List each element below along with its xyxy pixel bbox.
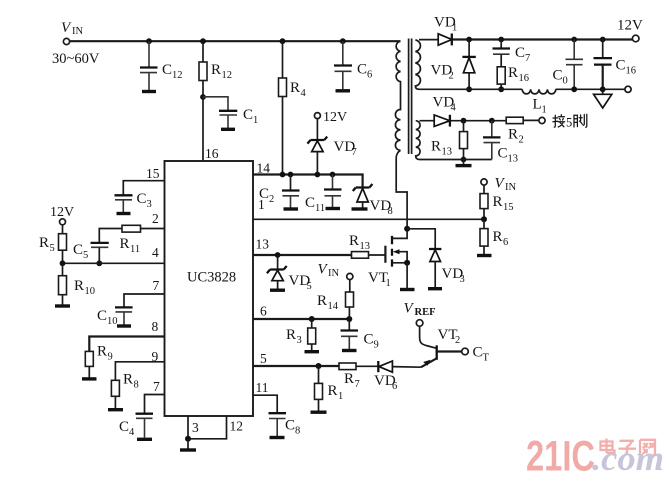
node CT terminal — [462, 348, 469, 355]
wire pin 7 lower — [145, 395, 165, 414]
label R8 — [123, 372, 139, 391]
junction C11 on pin14 rail — [330, 172, 336, 178]
ground of resistor R8 — [108, 408, 123, 411]
ground of zener diode VD5 — [270, 289, 285, 292]
svg-text:L: L — [533, 97, 542, 113]
zener diode VD8 — [353, 184, 373, 208]
resistor R5 — [59, 225, 67, 263]
diode VD2 — [462, 40, 475, 90]
svg-text:R: R — [39, 235, 49, 251]
svg-text:C: C — [553, 68, 563, 84]
label VD2 — [431, 63, 454, 82]
resistor R16 — [497, 67, 505, 90]
svg-text:.com: .com — [592, 439, 664, 478]
svg-text:R: R — [290, 80, 300, 96]
label VIN input — [61, 20, 83, 37]
svg-text:4: 4 — [129, 427, 135, 438]
resistor R13 output — [460, 121, 468, 160]
capacitor C9 — [341, 319, 359, 349]
wire drain node to VD3 — [407, 229, 435, 249]
ground of transistor VT1 source — [400, 288, 415, 291]
wire pin 3 — [187, 416, 189, 439]
label pin 2 — [152, 211, 159, 226]
label R7 — [344, 371, 360, 390]
label pin 15 — [146, 166, 160, 181]
svg-text:C: C — [357, 62, 367, 78]
ground of capacitor C12 — [142, 90, 156, 93]
resistor R3 — [308, 319, 316, 350]
svg-text:C: C — [498, 146, 508, 162]
label R16 — [508, 65, 529, 84]
label UC3828 — [187, 270, 236, 286]
ground of resistor R10 — [55, 304, 70, 307]
zener diode VD5 — [267, 255, 287, 289]
svg-text:2: 2 — [449, 71, 454, 82]
label 30~60V — [52, 51, 100, 67]
svg-text:2: 2 — [519, 135, 524, 146]
label R2 — [508, 127, 524, 146]
ground of capacitor C4 — [137, 438, 152, 441]
svg-text:5: 5 — [50, 243, 55, 254]
junction C16 top — [600, 37, 606, 43]
svg-text:C: C — [162, 62, 172, 78]
label 12V output — [617, 18, 643, 34]
svg-text:5: 5 — [566, 116, 572, 130]
svg-text:2: 2 — [269, 194, 274, 205]
transistor VT1 MOSFET — [385, 229, 407, 267]
label pin 6 — [260, 304, 267, 319]
capacitor C2 — [282, 175, 300, 208]
resistor R9 — [85, 351, 93, 377]
label 12V at R5 — [50, 205, 74, 220]
svg-text:3: 3 — [147, 199, 152, 210]
svg-text:3: 3 — [460, 274, 465, 285]
ground of capacitor C2 — [284, 207, 299, 210]
transformer T secondary winding bottom — [416, 121, 420, 160]
svg-text:5: 5 — [83, 250, 88, 261]
label VD5 — [289, 273, 312, 292]
resistor R7 — [339, 363, 378, 370]
svg-text:16: 16 — [626, 66, 637, 77]
svg-text:15: 15 — [503, 202, 514, 213]
wire node to C1 — [203, 97, 228, 110]
label R10 — [74, 278, 95, 297]
svg-text:16: 16 — [205, 146, 219, 161]
label C9 — [364, 332, 379, 351]
label pin 9 — [152, 349, 159, 364]
ground of zener diode VD8 — [352, 207, 368, 210]
junction C0 top — [571, 37, 577, 43]
svg-text:R: R — [493, 229, 503, 245]
label pin 14 — [257, 161, 271, 176]
svg-text:8: 8 — [295, 426, 300, 437]
junction C13 top — [489, 118, 495, 124]
wire pin 11 — [253, 395, 277, 413]
svg-text:11: 11 — [256, 380, 269, 395]
svg-text:C: C — [364, 332, 374, 348]
svg-text:6: 6 — [503, 237, 508, 248]
capacitor C16 — [594, 40, 613, 90]
node VIN terminal above R15 — [481, 179, 487, 185]
junction VT1 drain node — [404, 226, 410, 232]
svg-text:IN: IN — [328, 268, 339, 279]
svg-text:13: 13 — [256, 237, 270, 252]
svg-text:R: R — [328, 383, 338, 399]
svg-text:16: 16 — [519, 73, 530, 84]
label pin 12 — [230, 419, 244, 434]
svg-text:C: C — [243, 107, 253, 123]
svg-text:C: C — [285, 418, 295, 434]
label VIN at R14 — [318, 262, 340, 280]
junction VD2 bottom — [466, 86, 472, 92]
label 12V at VD7 — [323, 110, 347, 125]
svg-text:30~60V: 30~60V — [52, 51, 100, 67]
node 12V terminal above R5 — [60, 219, 66, 225]
resistor R15 — [480, 185, 488, 219]
resistor R12 — [199, 41, 207, 97]
label C11 — [305, 195, 325, 214]
wire pin 15 — [123, 181, 164, 195]
ground chassis below C16 — [594, 89, 612, 108]
svg-text:0: 0 — [563, 76, 568, 87]
svg-text:C: C — [473, 345, 483, 361]
wire VT1 source to ground — [406, 263, 408, 288]
svg-text:6: 6 — [392, 381, 397, 392]
label C4 — [119, 419, 135, 438]
svg-text:10: 10 — [85, 286, 96, 297]
svg-text:C: C — [616, 58, 626, 74]
label pin 1 — [258, 197, 265, 212]
svg-text:C: C — [119, 419, 129, 435]
capacitor C4 — [136, 414, 154, 438]
ground of capacitor C8 — [270, 436, 285, 439]
junction pin3 ground node — [185, 436, 191, 442]
svg-text:4: 4 — [301, 88, 307, 99]
svg-text:R: R — [97, 344, 107, 360]
wire pin 8 — [89, 337, 164, 352]
svg-text:12: 12 — [230, 419, 244, 434]
svg-text:6: 6 — [367, 70, 372, 81]
label pin 3 — [192, 420, 199, 435]
node VIN terminal above R14 — [347, 273, 353, 279]
svg-text:12: 12 — [222, 70, 233, 81]
svg-text:R: R — [508, 65, 518, 81]
svg-text:8: 8 — [134, 380, 139, 391]
transistor VT2 — [420, 326, 462, 367]
svg-text:1: 1 — [452, 23, 457, 34]
label R13 gate — [349, 233, 370, 252]
ground of capacitor C9 — [342, 349, 357, 352]
svg-text:IN: IN — [505, 182, 516, 193]
label pin 4 — [152, 245, 159, 260]
label C6 — [357, 62, 372, 81]
wire pin 12 — [188, 416, 227, 439]
ground of capacitor C3 — [117, 212, 131, 215]
watermark dianziwang — [601, 439, 656, 456]
svg-text:4: 4 — [152, 245, 159, 260]
node 12V output terminal — [632, 35, 639, 42]
wire secondary top rail — [419, 39, 633, 41]
label VIN at R15 — [495, 176, 517, 194]
svg-text:1: 1 — [386, 278, 391, 289]
svg-text:R: R — [211, 62, 221, 78]
label C13 — [498, 146, 519, 165]
svg-text:6: 6 — [260, 304, 267, 319]
label C2 — [259, 186, 274, 205]
node output return terminal — [625, 86, 631, 92]
ground of resistor R1 — [311, 411, 327, 414]
resistor R8 — [111, 380, 119, 408]
svg-text:3: 3 — [192, 420, 199, 435]
label VD8 — [370, 198, 393, 217]
label VD3 — [442, 266, 465, 285]
transformer T core — [409, 39, 412, 155]
capacitor C13 — [483, 121, 501, 160]
label R1 — [328, 383, 344, 402]
label C3 — [137, 191, 152, 210]
svg-text:R: R — [349, 233, 359, 249]
label C8 — [285, 418, 300, 437]
label R13 output — [431, 139, 452, 158]
svg-text:12V: 12V — [617, 18, 643, 34]
svg-text:7: 7 — [153, 278, 160, 293]
label VD7 — [334, 139, 357, 158]
wire pin 13 — [253, 254, 352, 256]
diode VD3 — [429, 249, 441, 287]
ground of diode VD3 — [428, 287, 442, 290]
wire pin 1 — [253, 218, 484, 220]
svg-text:R: R — [74, 278, 84, 294]
wire pin 5 — [253, 365, 339, 367]
svg-text:1: 1 — [258, 197, 265, 212]
svg-text:R: R — [431, 139, 441, 155]
inductor L1 — [522, 89, 556, 94]
junction R4 on pin14 rail — [280, 172, 286, 178]
junction R5 R10 node — [60, 260, 66, 266]
svg-text:14: 14 — [257, 161, 271, 176]
capacitor C3 — [115, 195, 133, 212]
svg-text:4: 4 — [451, 103, 457, 114]
label C5 — [73, 242, 88, 261]
label pin 11 — [256, 380, 269, 395]
capacitor C7 — [493, 40, 511, 67]
label R15 — [493, 194, 514, 213]
node terminal to pin5 — [539, 117, 545, 123]
svg-text:REF: REF — [415, 307, 436, 318]
label VD4 — [433, 95, 457, 114]
capacitor C1 — [219, 111, 237, 128]
label R12 — [211, 62, 232, 81]
wire secondary bottom rail — [419, 88, 625, 90]
svg-text:13: 13 — [360, 241, 371, 252]
ground below pin 3 — [180, 439, 196, 450]
svg-text:10: 10 — [107, 316, 118, 327]
resistor R6 — [480, 219, 488, 254]
label C16 — [616, 58, 637, 77]
capacitor C0 — [566, 40, 584, 90]
wire pin 2 — [99, 229, 164, 243]
label L1 — [533, 97, 547, 116]
wire pin 7 upper — [124, 294, 165, 307]
node VREF terminal — [416, 320, 423, 327]
junction C2 on pin14 rail — [288, 172, 294, 178]
svg-text:2: 2 — [152, 211, 159, 226]
label R11 — [120, 236, 141, 255]
ground of capacitor C11 — [326, 207, 341, 210]
resistor R4 — [279, 41, 287, 174]
svg-text:12: 12 — [172, 70, 183, 81]
svg-text:3: 3 — [297, 335, 302, 346]
svg-text:2: 2 — [455, 335, 460, 346]
wire primary bottom lead to drain node — [396, 150, 407, 226]
junction top rail at C12 — [146, 38, 152, 44]
svg-text:14: 14 — [328, 301, 339, 312]
label VD6 — [374, 373, 397, 392]
label VT2 — [438, 327, 461, 346]
wire main input rail — [70, 40, 401, 42]
resistor R11 — [122, 225, 141, 232]
svg-text:12V: 12V — [323, 110, 347, 125]
watermark dotcom — [592, 439, 664, 478]
node 12V terminal above VD7 — [314, 113, 320, 119]
node VIN input terminal — [63, 38, 69, 44]
diode VD4 — [434, 115, 450, 127]
junction R12 bottom node — [200, 94, 206, 100]
label pin 13 — [256, 237, 270, 252]
svg-text:8: 8 — [388, 206, 393, 217]
capacitor C12 — [140, 41, 158, 90]
label VD1 — [434, 15, 457, 34]
diode VD1 — [438, 34, 452, 46]
junction C16 bottom — [600, 86, 606, 92]
svg-text:R: R — [344, 371, 354, 387]
svg-text:R: R — [286, 327, 296, 343]
junction R13b bottom — [461, 157, 467, 163]
label C1 — [243, 107, 258, 126]
svg-text:13: 13 — [508, 154, 519, 165]
svg-text:5: 5 — [260, 351, 267, 366]
label C12 — [162, 62, 183, 81]
transformer T primary winding — [395, 41, 400, 150]
label R3 — [286, 327, 302, 346]
wire pin 14 rail — [253, 175, 363, 188]
IC U1 UC3828 body — [165, 161, 254, 416]
svg-text:7: 7 — [153, 379, 160, 394]
capacitor C5 — [91, 243, 109, 263]
label VREF — [404, 301, 436, 319]
ground of capacitor C10 — [117, 324, 131, 327]
svg-text:IN: IN — [72, 26, 83, 37]
svg-text:UC3828: UC3828 — [187, 270, 236, 286]
svg-text:7: 7 — [352, 147, 357, 158]
capacitor C11 — [324, 175, 342, 208]
svg-text:11: 11 — [315, 203, 325, 214]
label C10 — [97, 308, 118, 327]
svg-text:5: 5 — [307, 281, 312, 292]
junction VT1 source node — [404, 260, 410, 266]
resistor R1 — [315, 366, 323, 411]
junction R14 C9 on pin6 wire — [346, 316, 352, 322]
junction pin1 R15 R6 node — [481, 216, 487, 222]
wire pin 4 — [63, 262, 165, 264]
wire pin 6 — [253, 318, 349, 320]
capacitor C10 — [115, 307, 133, 324]
svg-text:9: 9 — [108, 352, 113, 363]
svg-text:R: R — [123, 372, 133, 388]
svg-text:7: 7 — [355, 379, 360, 390]
label R5 — [39, 235, 55, 254]
ground of capacitor C1 — [221, 128, 235, 131]
junction VD7 on pin14 rail — [315, 172, 321, 178]
svg-text:12V: 12V — [50, 205, 74, 220]
junction VD2 top — [466, 37, 472, 43]
svg-text:C: C — [97, 308, 107, 324]
transformer T secondary winding top — [415, 40, 420, 89]
svg-text:11: 11 — [130, 244, 140, 255]
resistor R13 gate — [352, 252, 386, 259]
label VT1 — [368, 270, 391, 289]
ground of resistor R3 — [305, 350, 320, 353]
zener diode VD7 — [307, 119, 327, 175]
junction R3 on pin6 wire — [309, 316, 315, 322]
watermark 21IC — [526, 433, 595, 481]
ground of capacitor C6 — [336, 89, 351, 92]
svg-text:8: 8 — [152, 319, 159, 334]
resistor R2 — [506, 117, 523, 123]
label jie5jiao connect pin5 — [553, 114, 587, 129]
label R9 — [97, 344, 113, 363]
junction C7 top — [498, 37, 504, 43]
wire secondary2 bottom rail — [420, 159, 492, 161]
ground of resistor R6 — [477, 254, 492, 257]
label R6 — [493, 229, 509, 248]
junction VD5 on pin13 wire — [275, 252, 281, 258]
label C7 — [515, 45, 530, 64]
svg-text:C: C — [137, 191, 147, 207]
diode VD6 — [378, 361, 421, 372]
capacitor C8 — [269, 413, 287, 436]
svg-text:21IC: 21IC — [526, 433, 595, 481]
svg-text:7: 7 — [525, 53, 530, 64]
svg-text:9: 9 — [374, 340, 379, 351]
resistor R10 — [59, 263, 67, 305]
junction R16 bottom — [498, 86, 504, 92]
label R14 — [317, 293, 339, 312]
label R4 — [290, 80, 307, 99]
svg-text:C: C — [305, 195, 315, 211]
capacitor C6 — [334, 41, 352, 89]
svg-text:15: 15 — [146, 166, 160, 181]
label CT — [473, 345, 490, 364]
junction C0 bottom — [571, 86, 577, 92]
ground below R13b — [456, 160, 472, 166]
label pin 5 — [260, 351, 267, 366]
label pin 8 — [152, 319, 159, 334]
svg-text:T: T — [483, 353, 490, 364]
junction top rail at C6 — [340, 38, 346, 44]
svg-text:13: 13 — [442, 147, 453, 158]
label pin 7 upper — [153, 278, 160, 293]
svg-text:R: R — [120, 236, 130, 252]
junction top rail at R4 — [280, 38, 286, 44]
junction R13b top — [461, 118, 467, 124]
wire pin16 feed — [202, 97, 204, 161]
label C0 — [553, 68, 568, 87]
svg-text:R: R — [508, 127, 518, 143]
junction C5 on pin4 wire — [96, 260, 102, 266]
svg-text:1: 1 — [338, 391, 343, 402]
wire secondary2 top rail — [420, 119, 539, 121]
